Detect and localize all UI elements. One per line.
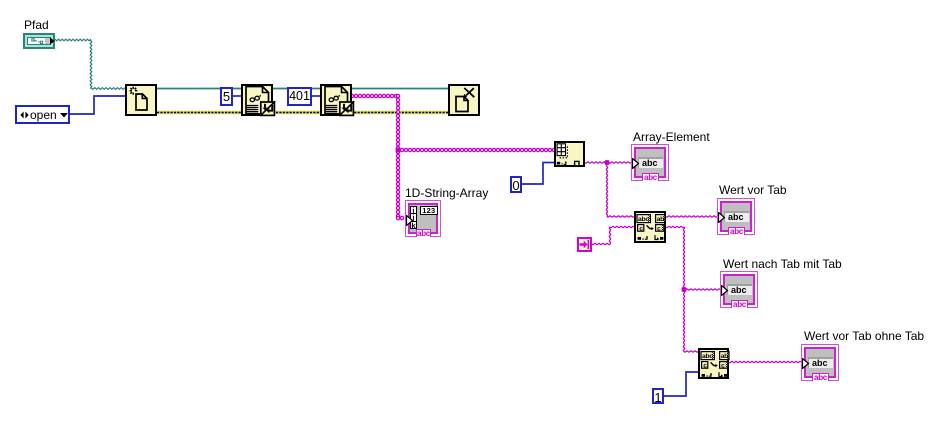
- svg-text:abc: abc: [702, 353, 713, 360]
- svg-text:ab: ab: [657, 216, 664, 223]
- svg-text:c: c: [703, 363, 707, 370]
- svg-text:c: c: [721, 363, 725, 370]
- svg-text:c: c: [639, 226, 643, 233]
- svg-text:abc: abc: [638, 216, 649, 223]
- svg-text:c: c: [657, 226, 661, 233]
- svg-text:ab: ab: [721, 353, 728, 360]
